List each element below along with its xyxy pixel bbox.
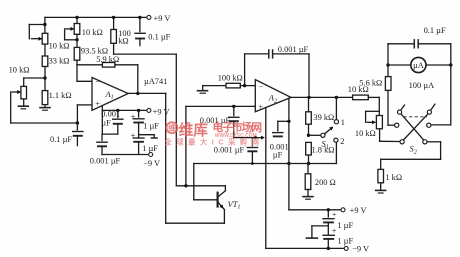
- wire -9V rail left: [102, 154, 149, 156]
- resistor 39k: [306, 97, 335, 137]
- resistor R pot 10k top-left: [42, 33, 69, 50]
- svg-text:5.6 kΩ: 5.6 kΩ: [359, 78, 382, 87]
- node -9V bottom rail: [266, 247, 345, 249]
- meter uA: [388, 57, 452, 72]
- svg-text:0.1 µF: 0.1 µF: [424, 26, 446, 35]
- wire pot1 to R 33k: [44, 44, 46, 56]
- svg-text:+: +: [95, 100, 100, 109]
- svg-text:0.001: 0.001: [101, 109, 120, 118]
- svg-text:+9 V: +9 V: [350, 206, 367, 215]
- resistor 1k: [378, 169, 402, 189]
- terminal +9V bottom: [341, 206, 367, 215]
- svg-text:+9 V: +9 V: [153, 107, 170, 116]
- wire A2 output: [291, 96, 353, 99]
- capacitor 1uF elec upper-left: [131, 110, 160, 138]
- capacitor 0.001uF A2 feedback: [245, 45, 309, 97]
- svg-text:+: +: [332, 210, 337, 219]
- switch S1 contact 2: [334, 137, 345, 163]
- svg-text:0.001 µF: 0.001 µF: [214, 145, 245, 154]
- svg-text:µF: µF: [273, 151, 283, 160]
- svg-text:33 kΩ: 33 kΩ: [49, 57, 70, 66]
- svg-text:1 µF: 1 µF: [337, 236, 353, 245]
- transistor VT1: [218, 186, 241, 223]
- wire arrow to A2 V- line: [234, 136, 265, 140]
- svg-text:5.9 kΩ: 5.9 kΩ: [96, 55, 119, 64]
- capacitor 0.1uF meter: [388, 26, 451, 48]
- capacitor 0.1uF at A1 + input: [50, 123, 84, 146]
- wire A2 + input from VT1 collector: [186, 105, 255, 186]
- svg-text:+: +: [258, 102, 263, 111]
- svg-text:1 µF: 1 µF: [337, 221, 353, 230]
- svg-text:−: −: [95, 78, 100, 87]
- svg-text:200 Ω: 200 Ω: [315, 178, 336, 187]
- svg-text:维库: 维库: [179, 121, 209, 139]
- wire output to pot 10k right: [378, 97, 380, 115]
- wire A1 V+ pin to +9V terminal: [102, 106, 147, 134]
- capacitor 1uF elec lower-left: [131, 131, 159, 155]
- wire pot right to S2 bottom-left: [380, 129, 400, 142]
- svg-text:−: −: [258, 82, 263, 91]
- ground under left pot: [18, 99, 30, 109]
- capacitor 0.001uF lower middle: [214, 138, 258, 164]
- svg-text:维: 维: [168, 124, 176, 133]
- wire pot1 wiper loop: [29, 23, 46, 41]
- svg-text:µF: µF: [101, 119, 111, 128]
- svg-text:1.1 kΩ: 1.1 kΩ: [49, 91, 72, 100]
- svg-text:0.1 µF: 0.1 µF: [50, 135, 72, 144]
- ground at A2 100k input: [197, 86, 209, 94]
- switch S1 contact 1: [334, 97, 345, 127]
- terminal +9V top: [147, 14, 171, 23]
- wire top rail to 100k: [113, 17, 115, 29]
- svg-text:1.8 kΩ: 1.8 kΩ: [312, 145, 335, 154]
- ground under 1k: [375, 189, 387, 191]
- svg-text:1 µF: 1 µF: [142, 144, 158, 153]
- op-amp A1: [92, 78, 128, 111]
- wire 93.5k to A1 - input: [77, 60, 92, 81]
- capacitor 0.001uF at A2 + input: [200, 106, 240, 137]
- wire top rail corner to pot R1: [44, 17, 46, 33]
- wire pot2 wiper loop: [65, 27, 79, 42]
- capacitor 0.001uF A1 supply a: [101, 109, 123, 134]
- wire top rail to pot2: [76, 17, 78, 23]
- capacitor 0.1uF top decoupling: [134, 17, 170, 45]
- resistor pot 10k left: [9, 66, 30, 99]
- svg-text:0.1 µF: 0.1 µF: [148, 33, 170, 42]
- svg-text:0.001 µF: 0.001 µF: [90, 157, 121, 166]
- svg-text:+: +: [131, 112, 136, 121]
- terminal +9V mid-left: [147, 107, 170, 116]
- resistor 5.6k: [359, 65, 394, 125]
- svg-text:全球最大IC采购网: 全球最大IC采购网: [164, 138, 264, 147]
- resistor 10k A2 output: [348, 85, 380, 100]
- wire pot right wiper loop: [366, 111, 380, 124]
- svg-text:2: 2: [340, 137, 344, 146]
- capacitor 1uF elec lower-right: [322, 227, 353, 250]
- svg-text:10 kΩ: 10 kΩ: [82, 28, 103, 37]
- svg-text:10 kΩ: 10 kΩ: [355, 129, 376, 138]
- resistor 1.1k: [42, 91, 71, 105]
- node +9V top rail: [45, 16, 147, 19]
- svg-text:+: +: [332, 227, 337, 236]
- watermark text: [164, 120, 264, 147]
- svg-text:0.001 µF: 0.001 µF: [278, 45, 309, 54]
- ground mid of 1uF pair left: [139, 135, 158, 138]
- resistor 33k: [42, 56, 69, 67]
- terminal -9V left: [143, 153, 160, 169]
- switch S1 wiper: [309, 127, 334, 151]
- svg-text:10 kΩ: 10 kΩ: [9, 66, 30, 75]
- wire left branch to pot 10k left: [24, 77, 45, 79]
- svg-text:100 kΩ: 100 kΩ: [218, 73, 243, 82]
- resistor 100k A2 input: [203, 73, 255, 88]
- wire S2 bottom-right to 1k: [381, 142, 441, 170]
- resistor 5.9k feedback: [77, 55, 138, 67]
- wire 33k to 1.1k with node to left branch: [43, 67, 46, 91]
- capacitor 1uF elec upper-right: [322, 210, 353, 235]
- wire meter right down to S2: [431, 44, 451, 125]
- resistor 93.5k: [74, 47, 108, 61]
- resistor 1.8k: [306, 142, 335, 163]
- terminal -9V bottom: [344, 245, 369, 254]
- node +9V bottom rail: [289, 208, 341, 211]
- watermark logo circle: [166, 122, 177, 133]
- svg-text:kΩ: kΩ: [118, 37, 128, 46]
- svg-text:100 µA: 100 µA: [409, 81, 435, 90]
- svg-text:−9 V: −9 V: [352, 245, 369, 254]
- svg-text:39 kΩ: 39 kΩ: [313, 113, 334, 122]
- resistor pot 10k right: [355, 116, 383, 138]
- wire A1 output to bottom bus: [128, 93, 224, 223]
- wire A2 V+ pin down to +9V rail: [287, 98, 290, 210]
- wire left pot wiper to A1 + input: [11, 90, 92, 125]
- capacitor 0.001uF A1 supply b: [90, 134, 121, 166]
- svg-text:µA: µA: [413, 61, 424, 70]
- capacitor 0.001uF A2 supply: [270, 121, 289, 159]
- svg-text:+9 V: +9 V: [154, 14, 171, 23]
- ground mid of 1uF pair right: [306, 226, 329, 238]
- resistor pot 10k mid: [74, 24, 102, 38]
- wire pot2 to 93.5k: [76, 34, 78, 47]
- wire feedback down to A1 output: [136, 65, 139, 95]
- wire meter branch node: [386, 44, 389, 67]
- svg-text:1: 1: [341, 118, 345, 127]
- wire 100k down right to VT1 collector: [114, 43, 226, 187]
- svg-text:−9 V: −9 V: [143, 159, 160, 168]
- resistor 100k left: [111, 29, 131, 45]
- svg-text:1 kΩ: 1 kΩ: [385, 173, 402, 182]
- ground under 1.1k: [39, 105, 51, 111]
- svg-text:µA741: µA741: [144, 77, 167, 86]
- resistor 200 ohm: [305, 164, 336, 196]
- svg-text:10 kΩ: 10 kΩ: [49, 42, 70, 51]
- wire A2 V- pin down to -9V rail: [265, 108, 267, 249]
- ground under 200 ohm: [302, 196, 314, 198]
- svg-text:电子市场网: 电子市场网: [213, 120, 263, 134]
- op-amp A2: [255, 80, 291, 112]
- switch S2: [395, 104, 435, 155]
- node rail A (S1-2 to VT1 base): [194, 162, 337, 200]
- svg-text:1 µF: 1 µF: [143, 122, 159, 131]
